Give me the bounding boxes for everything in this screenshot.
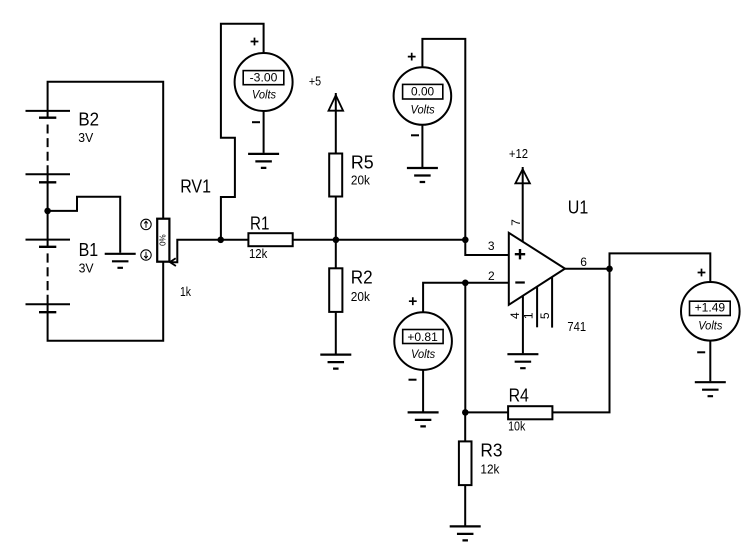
svg-text:R4: R4 [509, 386, 529, 406]
svg-text:+5: +5 [309, 73, 321, 88]
svg-text:20k: 20k [351, 289, 371, 304]
svg-text:0.00: 0.00 [411, 85, 434, 99]
svg-text:R5: R5 [351, 153, 374, 173]
svg-text:5: 5 [538, 312, 552, 319]
svg-text:-3.00: -3.00 [250, 71, 278, 85]
svg-text:+12: +12 [509, 146, 528, 161]
svg-text:1: 1 [522, 312, 536, 319]
svg-text:0%: 0% [159, 234, 168, 246]
svg-text:4: 4 [508, 312, 522, 319]
svg-text:B2: B2 [78, 110, 99, 130]
svg-text:R1: R1 [250, 213, 269, 233]
svg-text:3V: 3V [78, 130, 93, 145]
svg-text:R2: R2 [351, 268, 373, 288]
svg-text:3: 3 [488, 239, 495, 253]
svg-text:1k: 1k [180, 284, 191, 299]
svg-text:U1: U1 [568, 197, 589, 217]
svg-text:Volts: Volts [252, 87, 276, 101]
svg-text:2: 2 [488, 269, 495, 283]
svg-text:+1.49: +1.49 [695, 301, 726, 315]
svg-text:RV1: RV1 [180, 177, 211, 197]
svg-text:7: 7 [509, 219, 523, 226]
svg-text:12k: 12k [480, 462, 499, 477]
svg-text:Volts: Volts [411, 103, 435, 117]
svg-text:10k: 10k [508, 419, 526, 434]
svg-text:20k: 20k [351, 173, 370, 188]
svg-text:Volts: Volts [411, 347, 435, 361]
svg-text:12k: 12k [249, 246, 268, 261]
svg-text:3V: 3V [79, 261, 94, 276]
svg-text:B1: B1 [79, 240, 99, 260]
svg-text:+0.81: +0.81 [407, 330, 438, 344]
svg-text:741: 741 [567, 319, 586, 334]
svg-text:R3: R3 [480, 441, 502, 461]
svg-text:6: 6 [580, 255, 587, 269]
svg-text:Volts: Volts [698, 318, 722, 332]
